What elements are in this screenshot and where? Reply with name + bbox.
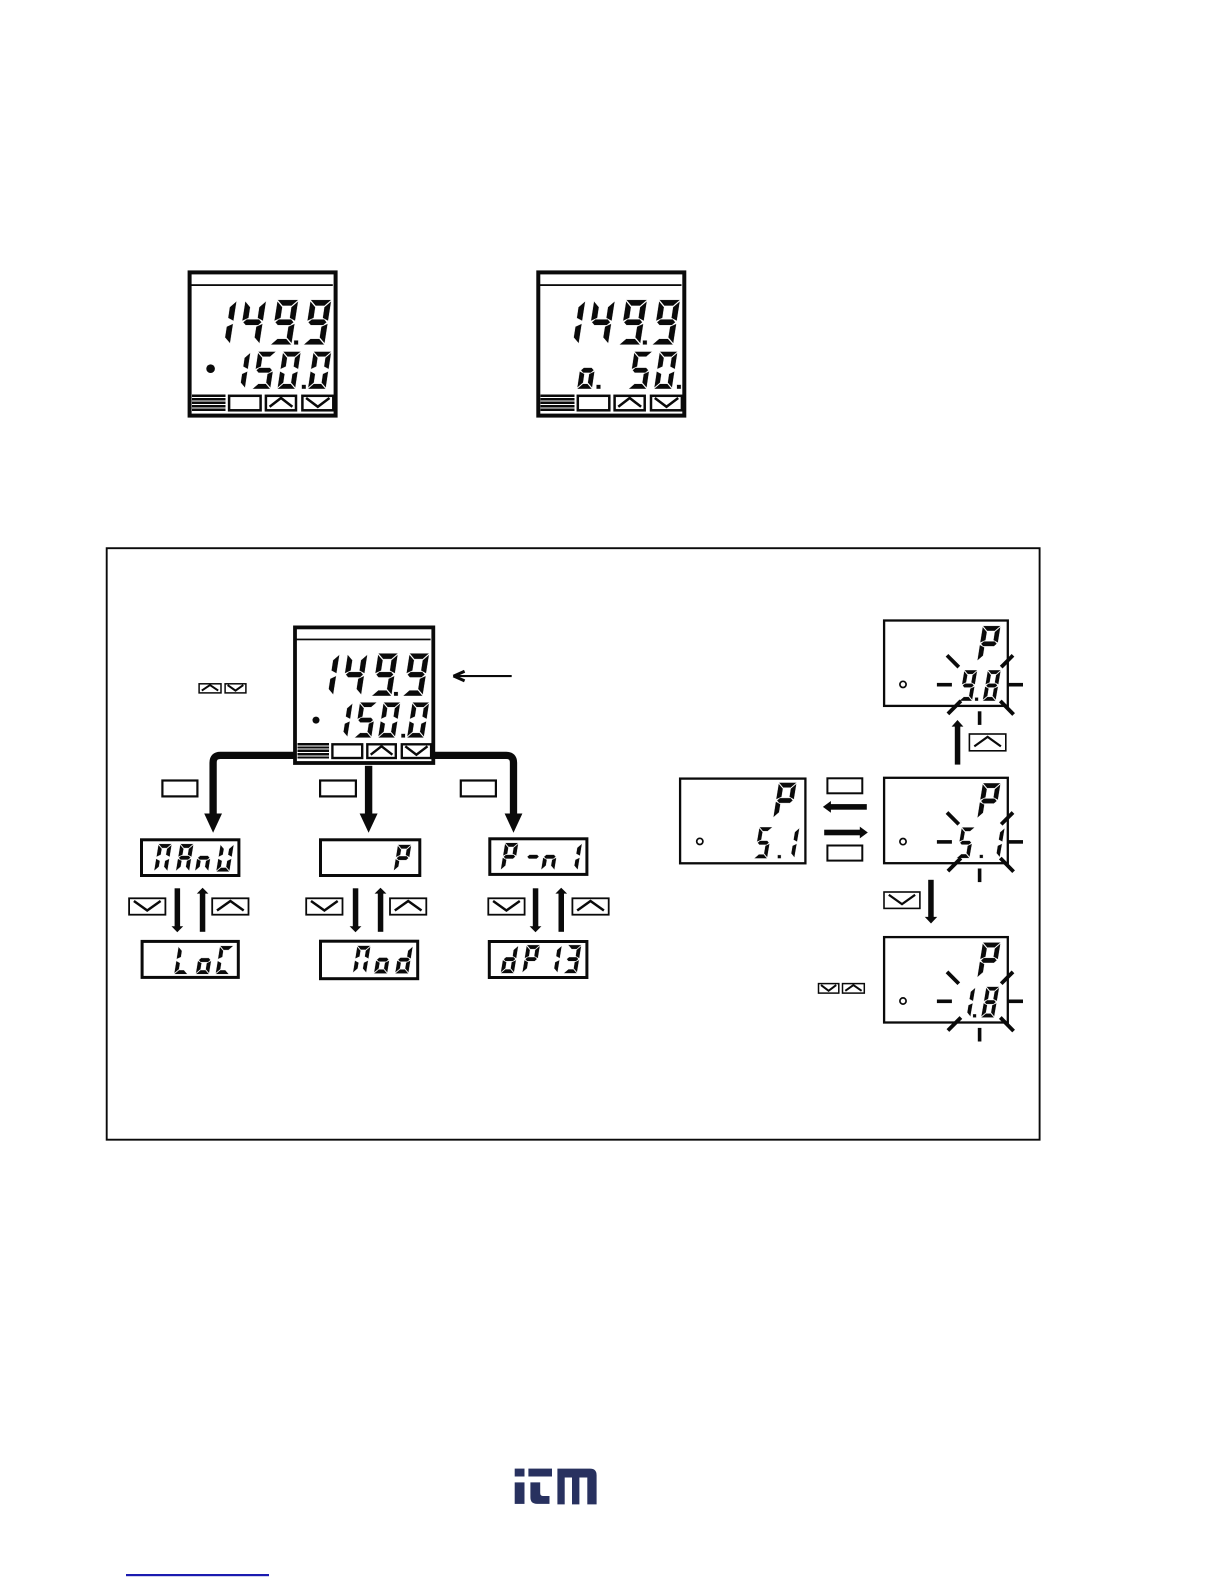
branch line to MAnU [204, 755, 293, 832]
down key P/Mod [306, 898, 342, 914]
display D2 frame [538, 272, 684, 415]
box LoC [142, 941, 238, 977]
down arrow P-n1/dP13 [530, 888, 542, 932]
display D1 top line [191, 284, 333, 286]
display D1 up key [266, 396, 296, 411]
display P=9.8 (blinking) parameter P [977, 626, 1001, 661]
itm logo [515, 1469, 597, 1505]
display D1 set key [229, 396, 261, 411]
display P=1.8 (blinking) LED [900, 998, 906, 1004]
display P=9.8 (blinking) blink rays [937, 655, 1023, 725]
display P=5.1 (steady) parameter P [773, 783, 797, 818]
display P=9.8 (blinking) LED [900, 681, 906, 687]
box MAnU [142, 840, 239, 876]
branch line to P-n1 [435, 755, 523, 832]
footer link line [126, 1574, 269, 1576]
label Mod [353, 946, 413, 974]
box Mod [321, 941, 418, 979]
down key to P=1.8 [884, 892, 920, 908]
display D3 (menu diagram) top line [297, 639, 431, 641]
display D3 (menu diagram) frame [295, 627, 433, 763]
up arrow P-n1/dP13 [555, 888, 567, 932]
display P=5.1 (steady) LED [697, 838, 703, 844]
label LoC [174, 946, 234, 975]
up arrow to P=9.8 [952, 720, 964, 765]
display D1 SV value [241, 352, 332, 390]
display D1 PV value 149.9 [225, 300, 332, 345]
display P=1.8 (blinking) value [967, 987, 999, 1018]
set key beside P branch [320, 781, 356, 797]
display P=5.1 (blinking) value [956, 827, 1004, 858]
display D2 set key [578, 396, 610, 411]
down arrow MAnU/LoC [172, 888, 184, 932]
arrow pointing to display D3 [453, 671, 511, 681]
up key P-n1/dP13 [572, 898, 608, 914]
display D3 (menu diagram) menu key icon [297, 743, 329, 759]
label MAnU [154, 844, 234, 872]
display P=1.8 (blinking) parameter P [977, 942, 1001, 977]
display P=5.1 (steady) frame [680, 779, 805, 864]
display D1 frame [190, 272, 336, 415]
display D1 down key [302, 396, 333, 411]
branch line to P [360, 766, 378, 833]
box P-n1 [490, 839, 587, 875]
down key beside P=1.8 [819, 984, 839, 994]
display P=5.1 (blinking) parameter P [977, 783, 1001, 818]
arrow to blinking display [824, 827, 868, 839]
display D3 output LED dot [313, 717, 320, 724]
set key lower between 5.1 displays [827, 846, 862, 861]
display P=5.1 (steady) value [754, 827, 800, 859]
display D2 down key [651, 396, 682, 411]
up key icon left of D3 [199, 684, 221, 693]
down arrow to P=1.8 [925, 880, 937, 924]
set key upper between 5.1 displays [827, 778, 862, 793]
display P=9.8 (blinking) value [959, 670, 1001, 701]
set key beside P-n1 branch [461, 781, 496, 797]
display D2 menu key icon [541, 395, 575, 411]
label dP13 [501, 945, 582, 974]
down arrow P/Mod [350, 888, 362, 932]
display D2 PV value 149.9 [574, 300, 681, 345]
display D3 (menu diagram) down key [402, 744, 431, 758]
up arrow P/Mod [375, 888, 387, 932]
up key P/Mod [390, 898, 426, 914]
display D1 output LED dot [206, 364, 215, 373]
up arrow MAnU/LoC [197, 888, 209, 932]
up key beside P=1.8 [843, 984, 865, 994]
display D3 (menu diagram) up key [367, 744, 396, 758]
display D3 (menu diagram) PV value 149.9 [329, 653, 430, 696]
down key MAnU/LoC [129, 898, 165, 914]
diagram border box [107, 548, 1040, 1139]
up key MAnU/LoC [212, 898, 248, 914]
label P [394, 845, 412, 871]
display P=5.1 (blinking) blink rays [937, 813, 1023, 883]
display P=1.8 (blinking) frame [884, 937, 1008, 1022]
display D3 (menu diagram) SV value [343, 702, 429, 738]
display P=5.1 (blinking) LED [900, 839, 906, 845]
display D2 up key [615, 396, 645, 411]
display P=9.8 (blinking) frame [884, 621, 1008, 706]
display D2 top line [540, 284, 682, 286]
display D2 SV value [577, 352, 681, 390]
box P [321, 840, 420, 876]
arrow to steady display [823, 801, 867, 813]
display P=5.1 (blinking) frame [884, 778, 1008, 863]
down key P-n1/dP13 [488, 898, 524, 914]
up key beside arrow [969, 734, 1005, 751]
box dP13 [489, 942, 587, 978]
display P=1.8 (blinking) blink rays [937, 972, 1023, 1042]
label P-n1 [501, 843, 582, 870]
display D3 (menu diagram) set key [332, 744, 362, 758]
down key icon left of D3 [225, 684, 246, 693]
display D1 menu key icon [192, 395, 226, 411]
set key beside MAnU branch [162, 781, 197, 797]
